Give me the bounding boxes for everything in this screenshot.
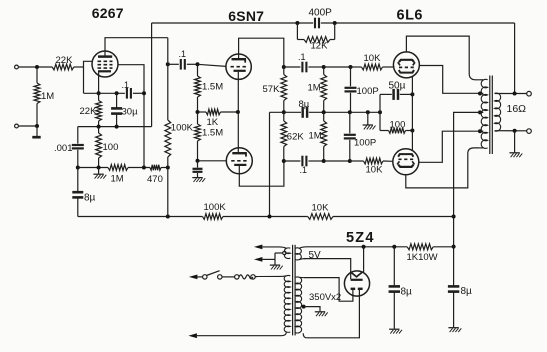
fuse element	[239, 275, 253, 279]
svg-text:6SN7: 6SN7	[228, 8, 264, 24]
ground (output)	[509, 131, 522, 157]
wire switch to fuse	[222, 276, 235, 278]
resistor 1K10W	[407, 244, 433, 250]
tube V3a plate hat	[399, 60, 414, 62]
wire cap to screen line	[133, 92, 144, 94]
capacitor .1 (coupling top)	[302, 62, 306, 73]
wire 100K col to bus	[167, 168, 169, 217]
wire 10Kb to tube	[383, 160, 393, 162]
label 1M row	[111, 174, 124, 185]
wire 10Ka to tube	[383, 66, 395, 68]
arrow mains bottom	[188, 333, 197, 338]
label 62K	[287, 132, 305, 143]
svg-text:8µ: 8µ	[84, 193, 96, 204]
node 30u bottom	[115, 125, 119, 129]
node 100P1 bottom	[348, 110, 352, 114]
wire 100 row right	[406, 130, 413, 132]
wire V1 screen to divider	[118, 65, 144, 168]
svg-text:1M: 1M	[308, 83, 321, 94]
label 8u filter2	[461, 286, 473, 297]
wire V1 plate to rail	[105, 38, 168, 57]
resistor 57K	[281, 67, 287, 112]
node 50u right	[410, 92, 414, 96]
wire heater B	[262, 258, 275, 260]
resistor 100 (V1 cathode)	[96, 127, 102, 168]
switch pole circle 2	[218, 275, 222, 279]
label 100P lower	[354, 137, 376, 148]
capacitor .1 (coupling bottom)	[302, 156, 306, 167]
node 100 right	[410, 129, 414, 133]
wire HV center tap	[304, 307, 320, 312]
svg-text:10K: 10K	[312, 203, 330, 214]
resistor 22K (input series)	[52, 64, 74, 70]
wire 5V bottom end	[299, 259, 306, 260]
tube V1 grid g2 dashes	[98, 64, 113, 66]
wire divider bus right	[333, 216, 454, 218]
tube V5 cathode bar	[351, 279, 363, 281]
wire heater end link	[275, 252, 283, 254]
coil heater winding	[284, 248, 290, 259]
svg-text:22K: 22K	[56, 55, 74, 66]
input terminal J2 (bottom)	[15, 124, 19, 128]
wire to coupling cap	[168, 63, 179, 65]
wire fuse to primary	[255, 276, 257, 278]
tube V2b grid dashes	[231, 160, 248, 162]
label 470	[147, 174, 163, 185]
label .1 coupling1	[179, 49, 187, 59]
wire 470 to 100K column	[161, 167, 168, 169]
wire 22K to 6267 grid corner	[74, 66, 84, 68]
arrow heater A	[254, 245, 263, 250]
label 1.5M upper	[202, 82, 223, 93]
label 8u filter1	[401, 287, 413, 298]
svg-text:100P: 100P	[357, 86, 379, 97]
wire divider bus mid	[223, 216, 308, 218]
node 100/gnd junction	[97, 166, 101, 170]
wire top row right	[308, 66, 323, 68]
wire bottom grid row	[324, 160, 350, 162]
svg-text:6267: 6267	[92, 5, 124, 21]
node B+/bus junction	[452, 215, 456, 219]
label 16 ohm	[507, 103, 527, 115]
tube V2b cathode bar	[234, 164, 246, 166]
wire V5 cathode pin	[363, 247, 365, 272]
svg-text:1.5M: 1.5M	[202, 128, 223, 139]
tube V2b plate bar	[232, 153, 247, 156]
svg-text:22K: 22K	[80, 106, 98, 117]
wire to 10K a	[351, 66, 362, 68]
core OPT	[490, 76, 493, 155]
label 1M input	[41, 91, 54, 102]
resistor 1.5M (upper)	[195, 64, 201, 112]
node HV center tap	[302, 305, 306, 309]
node input-bottom junction	[35, 124, 39, 128]
wire primary bottom end	[197, 332, 286, 336]
tube V4 cathode cup	[398, 154, 413, 157]
node 22K bottom	[97, 125, 101, 129]
node grid B junction	[196, 159, 200, 163]
capacitor .001	[72, 127, 84, 192]
ground (V1 cathode 100)	[93, 168, 106, 179]
resistor 100K (V1 plate load)	[165, 38, 171, 168]
label 50u	[389, 80, 406, 91]
svg-text:8µ: 8µ	[401, 287, 413, 298]
wire 5V bottom to filament	[304, 259, 351, 280]
coil HV winding 350Vx2	[295, 277, 301, 333]
label 12K	[311, 41, 329, 52]
coil 5V winding	[295, 248, 301, 260]
wire primary top end	[255, 275, 286, 278]
tube V2a cathode bar	[234, 70, 246, 72]
label 100P upper	[357, 86, 379, 97]
wire feedback riser	[151, 23, 153, 127]
label 8u first	[84, 193, 96, 204]
wire 1K10W to filter2	[433, 246, 453, 248]
ground (grid B cap)	[192, 178, 205, 182]
tube 6SN7b V2 envelope	[226, 148, 252, 174]
wire mid row left	[270, 111, 302, 113]
wire input top to grid node	[19, 66, 52, 68]
coil mains primary	[284, 275, 290, 332]
wire cathode row	[84, 92, 125, 94]
tube V3a beam plates	[398, 62, 415, 65]
resistor 1K	[198, 109, 238, 115]
node secondary top junction	[513, 92, 517, 96]
label 100 cathode 6L6	[390, 119, 406, 130]
svg-text:1K: 1K	[207, 117, 219, 128]
label 30u	[122, 107, 139, 118]
node bus/mid junction	[268, 215, 272, 219]
svg-text:.1: .1	[179, 49, 187, 59]
svg-text:50µ: 50µ	[389, 80, 406, 91]
tube 6L6b V4 envelope	[393, 149, 419, 175]
wire center tap stub	[480, 111, 484, 113]
wire V2b cathode return	[239, 161, 284, 186]
wire feedback to output	[514, 23, 516, 94]
core power transformer	[293, 245, 296, 336]
resistor 62K	[281, 112, 287, 161]
label 5V	[309, 250, 322, 261]
node 50u/100 left	[378, 110, 382, 114]
ground (filter 2)	[448, 328, 461, 332]
tube V4 beam plates	[397, 161, 414, 164]
fuse end circle 2	[251, 275, 255, 279]
wire V4 plate to OPT bottom	[406, 148, 480, 188]
resistor 12K (feedback)	[297, 37, 334, 43]
label 100 cathode	[103, 142, 119, 153]
svg-text:1.5M: 1.5M	[202, 82, 223, 93]
node cathode junction	[97, 91, 101, 95]
wire 5V top end	[299, 247, 306, 248]
resistor 22K (V1 cathode)	[96, 93, 102, 126]
svg-text:.1: .1	[122, 80, 130, 90]
svg-text:10K: 10K	[364, 53, 382, 64]
wire HV top end	[299, 276, 303, 278]
wire 12K drop right	[334, 23, 336, 40]
resistor 10K (bus)	[308, 214, 333, 220]
capacitor 100P (lower)	[344, 112, 356, 161]
label 1.5M lower	[202, 128, 223, 139]
wire 50u row right	[400, 93, 413, 95]
wire 100 row left	[380, 130, 389, 132]
capacitor 8u (mid coupling)	[303, 107, 307, 118]
svg-text:400P: 400P	[309, 8, 333, 19]
svg-text:8µ: 8µ	[461, 286, 473, 297]
capacitor 8u (B+ filter 1)	[389, 247, 400, 329]
label .1 screen bypass	[122, 80, 130, 90]
svg-text:57K: 57K	[263, 84, 281, 95]
node input-top junction	[35, 65, 39, 69]
node B+/1K10W junction	[452, 245, 456, 249]
capacitor 100P (upper)	[345, 67, 357, 112]
node 12K right	[333, 21, 337, 25]
resistor 470	[150, 165, 161, 170]
capacitor 400P (feedback)	[315, 18, 319, 29]
ground bar (input)	[32, 126, 40, 137]
node 1K right junction	[236, 110, 240, 114]
wire top grid row	[324, 66, 351, 68]
input terminal J1 (top)	[15, 65, 19, 69]
svg-text:.1: .1	[300, 165, 308, 175]
wire B+ center tap feed	[454, 112, 480, 285]
wire 1M to 470	[128, 167, 150, 169]
node mid gnd junction	[366, 110, 370, 114]
svg-text:.1: .1	[298, 52, 306, 62]
node OPT center tap	[478, 110, 482, 114]
capacitor 30u electrolytic	[111, 93, 122, 126]
wire to 10K b	[350, 160, 364, 162]
wire 12K drop left	[296, 23, 298, 40]
wire screen tap b stub	[480, 130, 484, 132]
node bus/470 junction	[166, 215, 170, 219]
wire screen tap a stub	[480, 92, 484, 94]
svg-text:1K10W: 1K10W	[407, 252, 438, 263]
heater winding end circle	[283, 251, 286, 254]
svg-text:1M: 1M	[41, 91, 54, 102]
wire top row left	[284, 66, 301, 68]
label 100K	[171, 123, 194, 134]
label 22K input	[56, 55, 74, 66]
tube V2a grid dashes	[231, 66, 248, 68]
tube V4 grid dashes	[398, 158, 413, 160]
node 1M/470 junction	[142, 166, 146, 170]
wire grid to 6SN7a	[198, 64, 227, 66]
resistor 100 (6L6 cathode)	[389, 128, 406, 134]
svg-text:5Z4: 5Z4	[346, 230, 375, 246]
ground (HV center tap)	[315, 312, 328, 316]
wire cathode pair riser	[379, 94, 381, 130]
tube V3a cathode cup	[399, 70, 414, 73]
node 100P1 top	[349, 65, 353, 69]
wire feedback rail left	[152, 22, 314, 24]
wire 5V top / B+ line	[307, 246, 408, 248]
svg-text:6L6: 6L6	[397, 8, 424, 24]
wire secondary bottom	[495, 130, 527, 132]
ground (mid bias)	[363, 112, 376, 129]
node 62K bottom	[282, 159, 286, 163]
resistor 10K (grid a)	[362, 64, 383, 70]
tube V5 plate bars	[351, 288, 363, 290]
tube 5Z4 V5 envelope	[344, 271, 369, 296]
switch lever	[207, 271, 220, 276]
tube V2a plate bar	[232, 59, 247, 62]
node 1Mb bottom	[322, 159, 326, 163]
node 12K left	[295, 21, 299, 25]
label 6L6	[397, 8, 424, 24]
svg-text:10K: 10K	[366, 164, 384, 175]
svg-text:8µ: 8µ	[299, 99, 310, 110]
switch pole circle 1	[203, 275, 207, 279]
label 400P	[309, 8, 333, 19]
wire V3a screen tap	[419, 66, 479, 94]
capacitor .1 (coupling 1)	[181, 59, 185, 70]
wire mid drop	[269, 112, 271, 216]
wire V3a plate to OPT top	[406, 36, 479, 80]
node 100P2 bottom	[348, 159, 352, 163]
wire 1M row left	[78, 167, 108, 169]
label 100K bus	[204, 202, 227, 213]
svg-text:100: 100	[390, 119, 406, 130]
wire V2a cathode to V2b plate	[237, 72, 239, 153]
tube V4 plate hat	[398, 165, 413, 167]
svg-text:5V: 5V	[309, 250, 322, 261]
wire to switch	[197, 276, 202, 278]
tube 6SN7a V2 envelope	[226, 54, 251, 79]
arrow mains top	[189, 275, 198, 280]
svg-text:1M: 1M	[111, 174, 124, 185]
svg-text:30µ: 30µ	[122, 107, 139, 118]
tube V3a grid dashes	[399, 66, 414, 68]
output terminal (bottom)	[527, 129, 532, 134]
label 1K10W	[407, 252, 438, 263]
wire mid row right	[309, 111, 380, 113]
node 470/100K junction	[166, 166, 170, 170]
tube 6267 V1 envelope	[92, 51, 118, 77]
svg-text:.001: .001	[54, 143, 73, 154]
node OPT screen tap a	[478, 92, 482, 96]
capacitor 8u (first, electrolytic)	[72, 192, 83, 216]
wire HV top to plate1	[304, 278, 353, 302]
wire feedback rail right	[321, 22, 515, 24]
svg-text:100P: 100P	[354, 137, 376, 148]
capacitor 8u (B+ filter 2)	[448, 286, 459, 327]
arrow heater B	[254, 257, 263, 262]
label 1K	[207, 117, 219, 128]
label 6267	[92, 5, 124, 21]
node 5Z4 cathode junction	[362, 245, 366, 249]
svg-text:16Ω: 16Ω	[507, 103, 527, 115]
tube 6L6a V3 envelope	[393, 52, 419, 78]
resistor 1M (row)	[108, 165, 128, 171]
wire bottom row right	[308, 160, 323, 162]
label 22K cathode	[80, 106, 98, 117]
node 1K junction	[196, 110, 200, 114]
svg-text:62K: 62K	[287, 132, 305, 143]
wire heater B drop	[274, 253, 276, 259]
label .001	[54, 143, 73, 154]
label 10K bus	[312, 203, 330, 214]
tube V5 filament V	[350, 272, 362, 277]
svg-text:1M: 1M	[309, 131, 322, 142]
output terminal (top)	[527, 91, 532, 96]
wire bottom row left	[284, 160, 301, 162]
wire 6L6 cathodes line	[411, 77, 413, 151]
tube V1 plate bar	[98, 55, 112, 58]
svg-text:100: 100	[103, 142, 119, 153]
wire V1 cathode pin	[98, 72, 100, 93]
wire secondary top	[495, 93, 527, 95]
wire cap to grid node	[187, 63, 198, 65]
tube V1 grid g3 dashes	[98, 60, 113, 62]
wire V2a plate to 57K	[239, 38, 284, 67]
wire cathode bottom row	[78, 126, 152, 128]
wire heater top end	[262, 247, 286, 248]
svg-text:350Vx2: 350Vx2	[309, 292, 341, 303]
ground (heater)	[270, 259, 283, 269]
node 1.5M top junction	[196, 62, 200, 66]
resistor 100K (bus)	[203, 214, 224, 220]
coil OPT primary	[479, 79, 487, 148]
node 30u top junction	[115, 91, 119, 95]
ground (filter 1)	[389, 329, 402, 333]
node 1Ma top	[322, 65, 326, 69]
resistor 10K (grid b)	[364, 158, 384, 164]
node 57K bottom	[282, 110, 286, 114]
label 8u mid	[299, 99, 310, 110]
node 1M mid	[322, 110, 326, 114]
node 8u filter1 junction	[392, 245, 396, 249]
tube V1 cathode bar	[98, 70, 111, 72]
capacitor .1 (screen bypass)	[127, 88, 131, 99]
wire divider bus left	[78, 216, 203, 218]
label 6SN7	[228, 8, 264, 24]
label 10K b	[366, 164, 384, 175]
svg-text:100K: 100K	[171, 123, 194, 134]
label .1 bottom	[300, 165, 308, 175]
label .1 top	[298, 52, 306, 62]
label 10K a	[364, 53, 382, 64]
label 5Z4	[346, 230, 375, 246]
node plate/100K junction	[166, 62, 170, 66]
wire grid to 6SN7b	[198, 160, 227, 162]
label 1M upper	[308, 83, 321, 94]
wire V4 screen tap	[419, 131, 480, 162]
node .001/8u junction	[76, 166, 80, 170]
resistor 1.5M (lower)	[195, 112, 201, 161]
wire input bottom	[19, 125, 37, 127]
node secondary bottom junction	[513, 129, 517, 133]
svg-text:12K: 12K	[311, 41, 329, 52]
label 1M lower	[309, 131, 322, 142]
tube V1 grid g1 dashes	[98, 67, 113, 69]
node screen line junction	[142, 91, 146, 95]
node 57K top	[282, 65, 286, 69]
svg-text:470: 470	[147, 174, 163, 185]
resistor 1M (input grid leak)	[34, 67, 40, 126]
wire 50u row left	[380, 93, 392, 95]
label 57K	[263, 84, 281, 95]
capacitor (grid B to ground)	[193, 161, 203, 177]
resistor 1M (upper grid leak)	[321, 67, 327, 112]
svg-text:100K: 100K	[204, 202, 227, 213]
capacitor 50u electrolytic	[394, 89, 398, 100]
coil OPT secondary	[494, 93, 500, 131]
resistor 1M (lower grid leak)	[321, 112, 327, 161]
wire HV bottom to plate2	[303, 290, 359, 338]
label 350Vx2	[309, 292, 341, 303]
fuse end circle 1	[235, 275, 239, 279]
node OPT screen tap b	[478, 129, 482, 133]
